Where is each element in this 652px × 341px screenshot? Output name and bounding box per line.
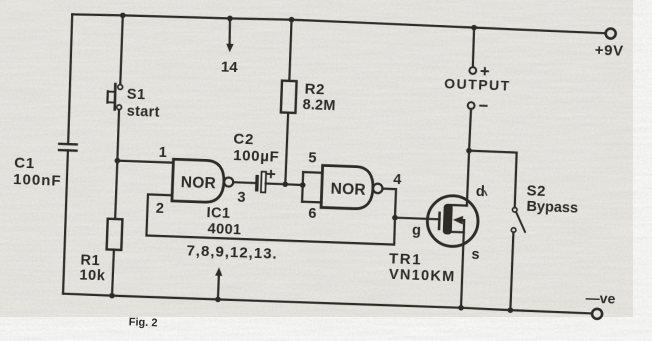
label d [476,184,485,200]
svg-text:TR1: TR1 [389,250,423,268]
svg-text:VN10KM: VN10KM [389,267,456,285]
wire: TR1 source down to rail [461,232,464,308]
svg-text:Fig. 2: Fig. 2 [129,316,158,329]
node: gate lead junction [392,215,398,221]
wire: junction to gate2 input tie [285,183,302,186]
node: S1/R1/pin1 junction [114,158,120,164]
wire: S1 down to junction [117,110,119,161]
wire: rail down to S1 [120,15,123,84]
node: R2 top rail junction [289,17,295,23]
terminal -ve [592,309,602,319]
wire: gate2 input 5 [303,171,322,174]
svg-text:IC1: IC1 [206,205,230,222]
svg-text:Bypass: Bypass [526,199,578,217]
wire: junction down to R1 [115,161,117,219]
svg-text:OUTPUT: OUTPUT [444,75,511,93]
svg-text:4: 4 [393,172,402,188]
svg-text:NOR: NOR [330,180,366,198]
svg-text:14: 14 [221,59,239,77]
node: pin14 rail junction [227,15,233,21]
wire: junction to gate1 input 1 [117,161,173,163]
svg-text:3: 3 [237,189,246,205]
svg-text:6: 6 [308,206,317,222]
svg-text:d: d [476,184,485,200]
svg-text:100µF: 100µF [233,147,280,166]
svg-text:S2: S2 [526,182,546,200]
plus sign at OUTPUT [481,68,488,75]
wire: left frame above C1 [67,14,72,144]
svg-text:NOR: NOR [180,174,216,192]
svg-text:R2: R2 [304,80,325,98]
svg-text:10k: 10k [79,268,106,285]
node: C2/R2 junction [282,181,288,187]
wire: R2 down to C2 junction [285,113,288,185]
svg-text:start: start [126,104,160,121]
svg-text:S1: S1 [127,87,146,104]
label IC1 4001 [206,205,243,238]
wire: S2 down to rail [510,232,513,310]
wire: left frame below C1 [63,150,69,293]
svg-text:100nF: 100nF [13,171,62,190]
capacitor C1 [59,144,77,151]
node: R1 bottom rail junction [109,293,115,299]
terminal +9V [605,28,615,38]
svg-text:4001: 4001 [207,221,241,238]
node: pins arrow rail junction [215,297,221,303]
label C2 100uF [233,131,281,166]
pin 14 arrow from rail [226,18,235,52]
label C1 100nF [13,154,63,189]
label S2 Bypass [526,182,579,216]
resistor R1 [107,219,123,250]
svg-text:g: g [412,223,421,239]
transistor TR1 VN10KM (MOSFET) [426,195,478,247]
label R2 8.2M [302,80,336,114]
svg-text:s: s [471,247,480,263]
node: S2 branch junction [466,148,472,154]
svg-text:7,8,9,12,13.: 7,8,9,12,13. [186,242,278,262]
node: OUTPUT rail junction [471,25,477,31]
wire: TR1 drain up to OUTPUT - [467,109,471,206]
label S1 start [126,87,161,121]
svg-text:2: 2 [156,201,165,217]
wire: junction to TR1 gate [395,218,439,220]
NOR gate U1a [172,159,234,203]
wire: rail down to R2 [289,20,291,81]
minus sign at OUTPUT [480,105,486,107]
wire: gate2 input tie bar [302,172,303,202]
node: S1 top rail junction [120,12,126,18]
wire: rail down to OUTPUT + [473,28,475,67]
terminal OUTPUT + [469,67,476,74]
terminal OUTPUT - [468,102,475,109]
wire: feedback down and left to gate1 input 2 [146,194,395,244]
svg-text:5: 5 [308,150,317,166]
wire: bottom -ve rail [63,293,592,313]
svg-text:8.2M: 8.2M [302,97,336,114]
wire: +9V top supply rail [72,12,606,34]
label TR1 VN10KM [388,250,456,285]
wire: R1 to bottom rail [112,250,114,296]
svg-text:C2: C2 [233,131,254,149]
wire: gate1 output to C2 [233,181,255,184]
node: S2 rail junction [507,307,513,313]
switch S1 (push button) [107,84,123,110]
tick after d [484,191,486,195]
capacitor C2 (polarised) [255,170,274,192]
switch S2 [511,207,526,232]
wire: branch to S2 [467,151,517,208]
node: source rail junction [458,305,464,311]
svg-text:1: 1 [158,145,167,161]
wire: gate2 input 6 [302,201,321,204]
pin arrow 7,8,9,12,13 to rail [214,267,222,299]
svg-text:C1: C1 [14,154,35,172]
node: gate2 tie junction [300,182,306,188]
resistor R2 [281,81,297,113]
NOR gate U1b [321,165,383,209]
svg-text:+9V: +9V [594,41,624,59]
label R1 10k [79,253,106,285]
wire: C2 to junction [266,182,286,185]
svg-text:—ve: —ve [585,290,615,307]
wire: gate2 output to gate junction [381,189,396,218]
